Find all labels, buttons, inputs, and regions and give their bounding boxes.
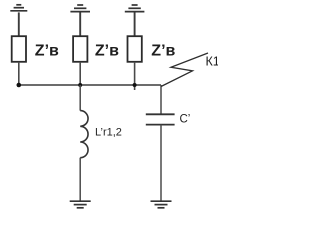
wire: box 3 through bus (short stub below): [134, 62, 136, 90]
wire: bus to inductor: [79, 85, 81, 111]
inductor L'r1,2: [80, 111, 88, 158]
ground G5 (below capacitor): [151, 201, 172, 208]
node: junction dot middle: [78, 83, 82, 87]
ground G1 (top of phase 1): [10, 5, 27, 11]
svg-text:L’r1,2: L’r1,2: [95, 127, 122, 139]
svg-text:Z’в: Z’в: [151, 42, 175, 59]
switch K1 (lightning symbol): [161, 53, 208, 87]
wire: ground G2 to Z'в box 2: [79, 12, 81, 36]
wire: capacitor to ground: [160, 125, 162, 201]
node: junction dot left: [17, 83, 22, 88]
resistor box Z'в (phase 1): [12, 36, 26, 62]
node: junction dot right: [133, 83, 137, 87]
wire: box 1 to bus: [18, 62, 20, 85]
wire: bus corner to capacitor: [160, 85, 162, 114]
svg-text:Z’в: Z’в: [35, 43, 59, 60]
resistor box Z'в (phase 3): [128, 36, 142, 62]
wire: ground G1 to Z'в box 1: [18, 12, 20, 36]
capacitor C' plates: [146, 114, 175, 124]
ground G3 (top of phase 3): [125, 5, 145, 12]
resistor box Z'в (phase 2): [73, 36, 87, 62]
svg-text:Z’в: Z’в: [95, 43, 119, 60]
svg-text:C’: C’: [180, 114, 191, 126]
wire: horizontal bus: [19, 84, 161, 86]
ground G2 (top of phase 2): [70, 5, 90, 12]
wire: box 2 to bus: [79, 62, 81, 85]
wire: inductor to ground: [79, 158, 81, 201]
svg-text:К1: К1: [206, 55, 219, 69]
ground G4 (below inductor): [70, 201, 91, 208]
wire: ground G3 to Z'в box 3: [134, 12, 136, 36]
